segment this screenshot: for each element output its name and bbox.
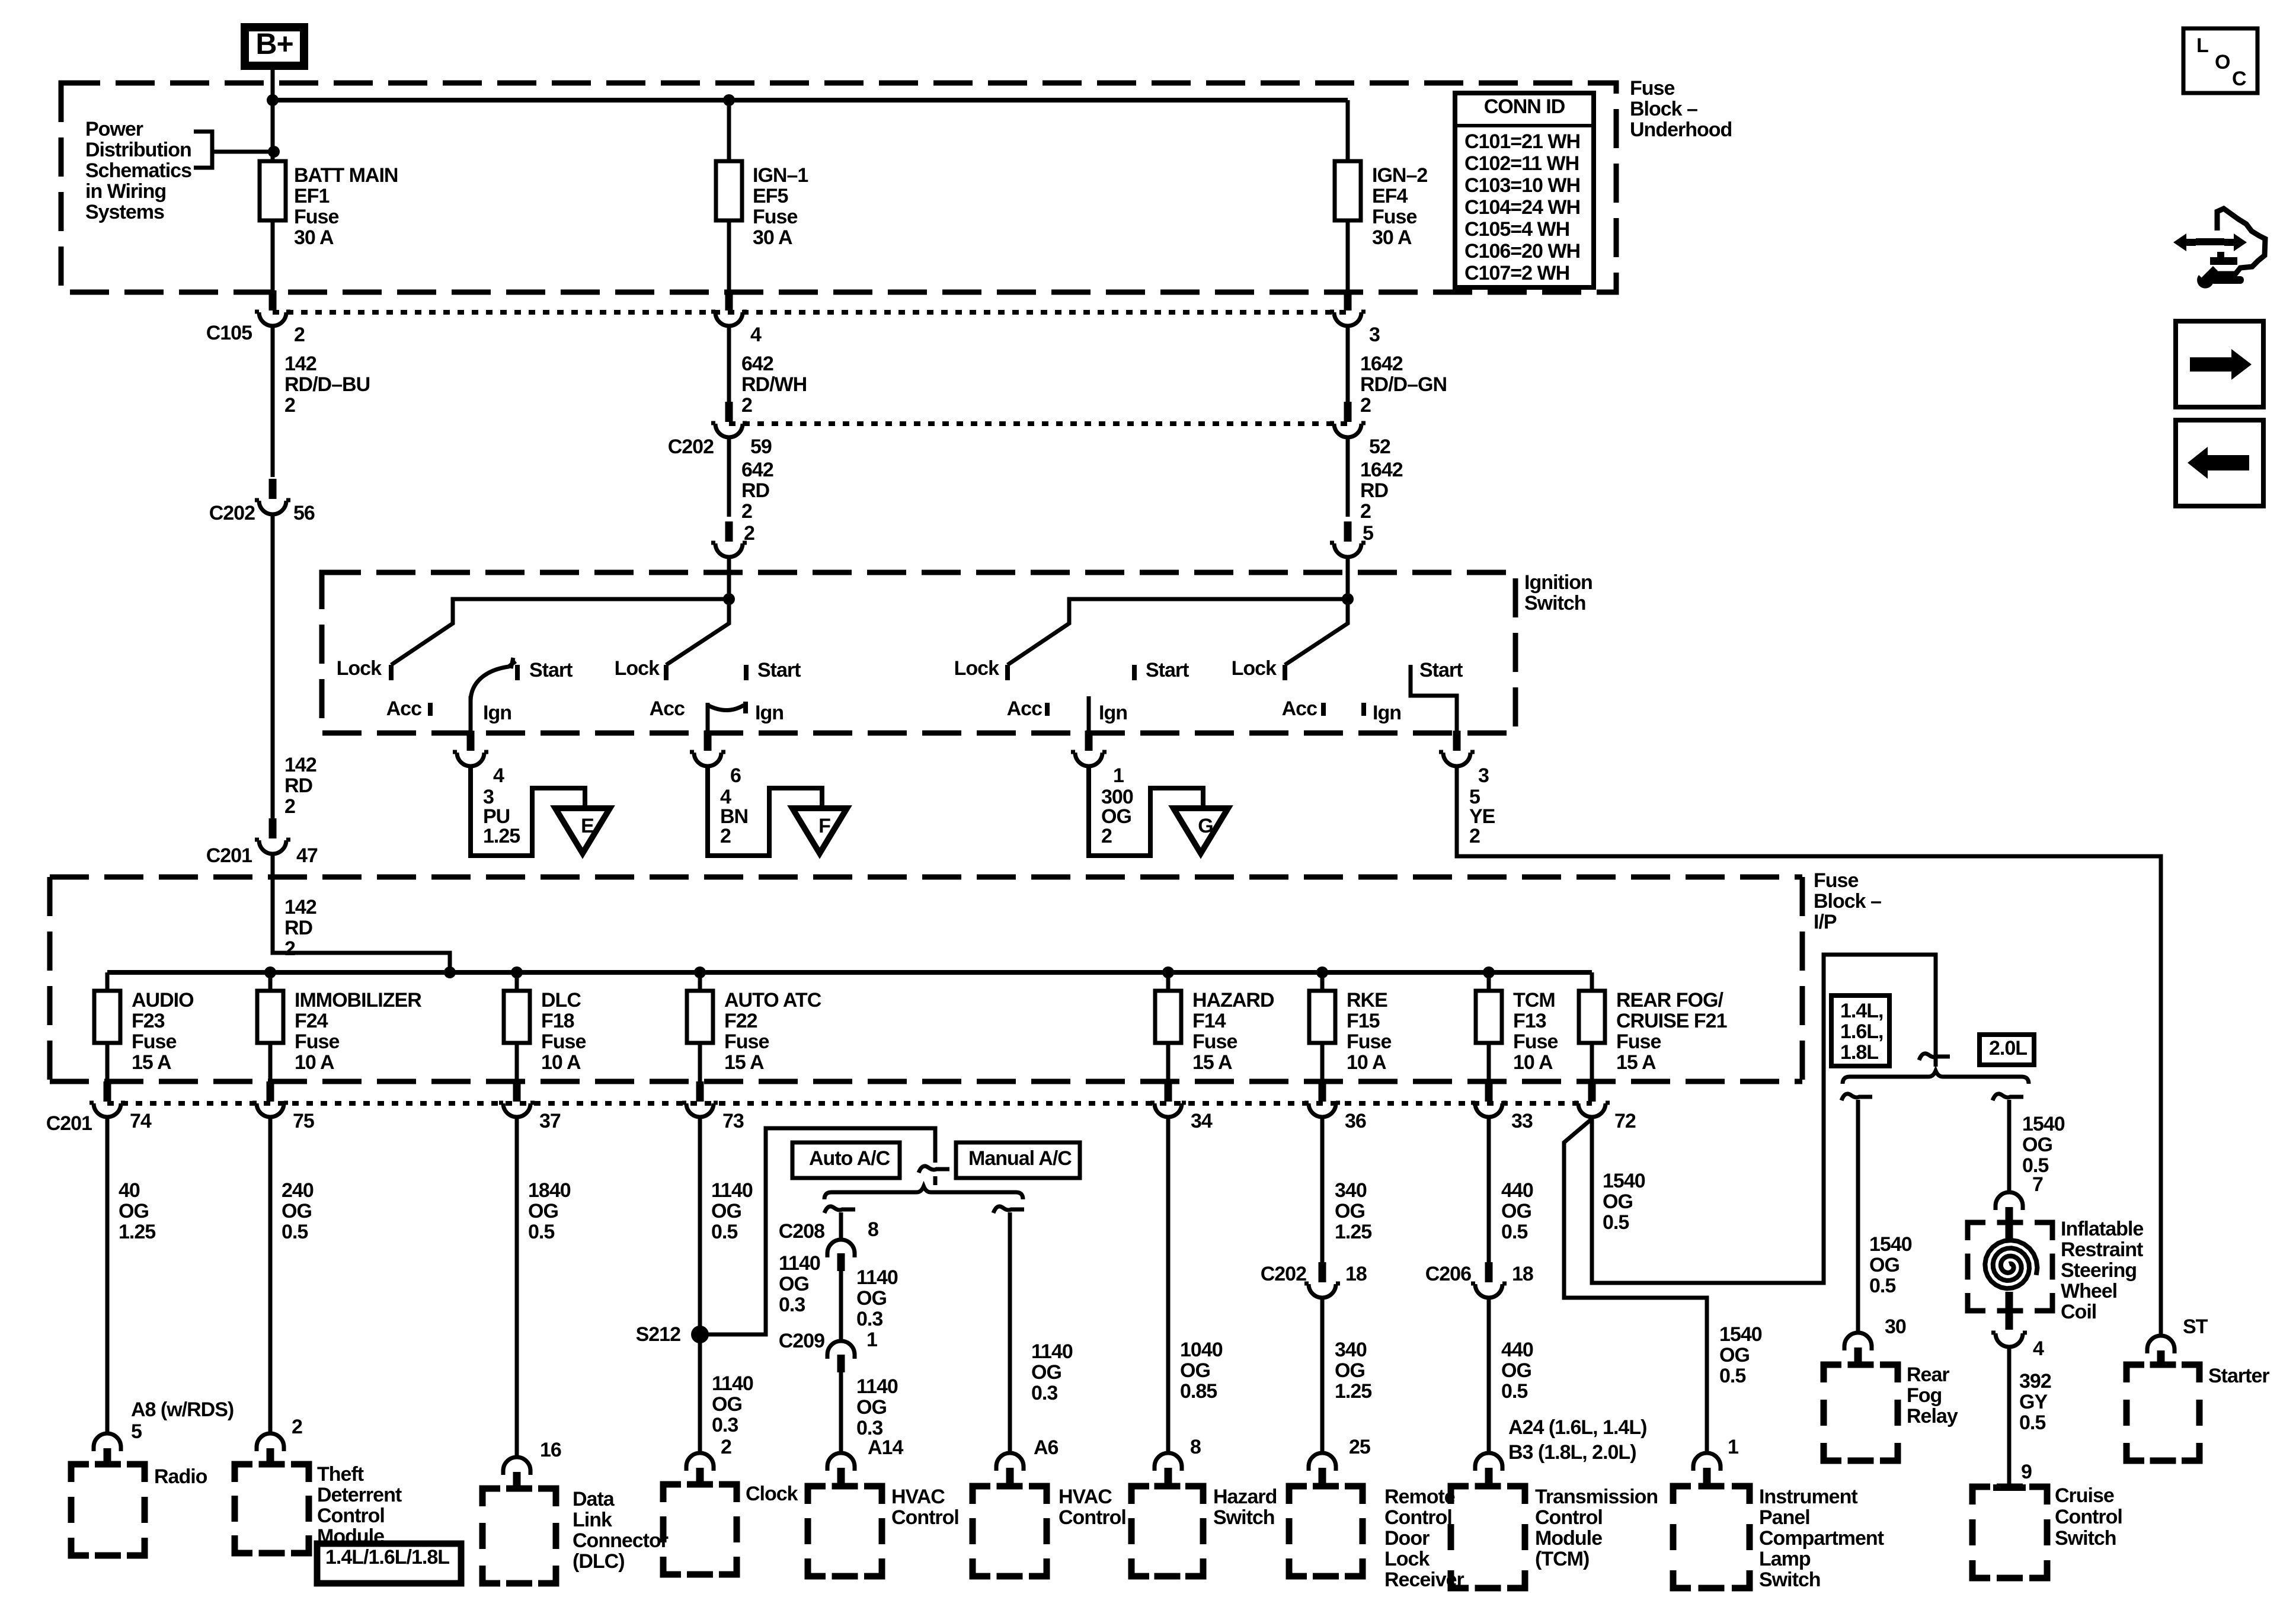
connector switch3 pin 1 xyxy=(1071,731,1107,766)
label instrument lamp switch xyxy=(1759,1486,1884,1591)
svg-text:F15: F15 xyxy=(1347,1010,1380,1032)
connector C201 pin 33 xyxy=(1471,1081,1507,1117)
svg-text:6: 6 xyxy=(730,764,741,787)
wire audio column xyxy=(105,1117,110,1433)
contact lock 4 xyxy=(1232,657,1285,680)
wire switch4 common xyxy=(1285,599,1348,665)
svg-text:OG: OG xyxy=(856,1287,887,1310)
svg-text:Switch: Switch xyxy=(1759,1569,1821,1591)
svg-text:C208: C208 xyxy=(779,1220,824,1243)
svg-text:O: O xyxy=(2215,51,2230,73)
connector hazard pin 8 xyxy=(1155,1453,1182,1484)
svg-text:C202: C202 xyxy=(209,502,255,524)
label pin 30 xyxy=(1885,1315,1906,1338)
wire bus to fuse F22 xyxy=(698,972,702,991)
svg-text:RD: RD xyxy=(741,479,770,502)
node ip bus x872 xyxy=(511,966,523,978)
svg-text:Wheel: Wheel xyxy=(2061,1280,2117,1302)
svg-text:C105: C105 xyxy=(206,322,252,344)
wire ign1 C105-C202 xyxy=(727,326,731,403)
svg-text:CONN ID: CONN ID xyxy=(1484,95,1565,118)
label wire 440 OG 0.5 low xyxy=(1501,1339,1533,1403)
svg-text:Deterrent: Deterrent xyxy=(317,1484,402,1506)
label wire 1140 OG 0.3 left xyxy=(779,1252,820,1316)
svg-text:1540: 1540 xyxy=(1869,1233,1912,1256)
svg-text:B3 (1.8L, 2.0L): B3 (1.8L, 2.0L) xyxy=(1508,1441,1636,1464)
svg-text:Systems: Systems xyxy=(85,201,164,223)
svg-text:Schematics: Schematics xyxy=(85,159,191,182)
label hvac control 1 xyxy=(891,1486,959,1529)
svg-text:25: 25 xyxy=(1349,1436,1370,1458)
svg-text:C107=2 WH: C107=2 WH xyxy=(1464,262,1569,284)
wire switch1 common xyxy=(391,599,729,665)
label wire 240 OG 0.5 xyxy=(282,1179,314,1243)
svg-text:HAZARD: HAZARD xyxy=(1192,989,1274,1012)
svg-text:15 A: 15 A xyxy=(132,1051,171,1074)
svg-text:30 A: 30 A xyxy=(753,226,792,249)
wire f21 instrument branch xyxy=(1564,1119,1707,1452)
svg-text:2: 2 xyxy=(721,1436,731,1458)
svg-text:C201: C201 xyxy=(46,1112,92,1135)
component cruise box xyxy=(1972,1487,2047,1578)
fuse EF1 BATT MAIN xyxy=(260,161,286,220)
icon arrow right box xyxy=(2176,321,2263,407)
svg-text:AUDIO: AUDIO xyxy=(132,989,194,1012)
svg-text:Control: Control xyxy=(2055,1506,2122,1528)
svg-text:1: 1 xyxy=(1113,764,1124,787)
label pin 8 hazard xyxy=(1190,1436,1201,1458)
label fuse F14 xyxy=(1192,989,1274,1074)
connector cruise pin 9 xyxy=(1993,1484,2026,1491)
label pin 73 xyxy=(722,1110,744,1132)
svg-text:2: 2 xyxy=(284,394,295,417)
svg-text:642: 642 xyxy=(741,353,773,375)
label pin 33 xyxy=(1511,1110,1533,1132)
svg-text:(TCM): (TCM) xyxy=(1535,1548,1589,1570)
svg-text:Fuse: Fuse xyxy=(1616,1030,1661,1053)
component hazard box xyxy=(1131,1486,1203,1576)
svg-text:2: 2 xyxy=(741,394,752,417)
svg-text:Lock: Lock xyxy=(954,657,999,680)
label ign 2 xyxy=(755,702,784,724)
svg-text:1140: 1140 xyxy=(1031,1340,1073,1363)
fuse F24 IMMOBILIZER xyxy=(257,991,283,1043)
label pin 3 out xyxy=(1478,764,1489,787)
svg-text:F18: F18 xyxy=(541,1010,574,1032)
label pin 2 theft xyxy=(292,1416,302,1438)
svg-text:7: 7 xyxy=(2032,1173,2043,1196)
label fuse block ip xyxy=(1814,869,1881,933)
svg-text:33: 33 xyxy=(1511,1110,1533,1132)
component hvac2 box xyxy=(973,1486,1047,1576)
svg-text:Data: Data xyxy=(573,1488,615,1510)
label pin 36 xyxy=(1345,1110,1366,1132)
svg-text:Relay: Relay xyxy=(1907,1405,1958,1427)
svg-text:OG: OG xyxy=(282,1200,312,1222)
label inflatable coil xyxy=(2061,1218,2143,1323)
label ign 3 xyxy=(1099,702,1127,724)
connector C201 pin 47 xyxy=(255,818,290,854)
connector C202 pin 59 xyxy=(711,402,747,437)
svg-text:Fuse: Fuse xyxy=(1192,1030,1237,1053)
svg-text:F13: F13 xyxy=(1513,1010,1546,1032)
connector tcm pin xyxy=(1475,1453,1502,1484)
connector C202 pin 52 xyxy=(1330,402,1366,437)
wire switch2 common xyxy=(666,599,729,665)
wire batt C202-C201 xyxy=(271,514,275,818)
fuse F22 AUTO ATC xyxy=(687,991,713,1043)
svg-text:1.25: 1.25 xyxy=(119,1221,155,1243)
svg-text:C102=11 WH: C102=11 WH xyxy=(1464,152,1579,175)
connector C105 pin 3 xyxy=(1330,290,1366,326)
contact lock 1 xyxy=(337,657,391,680)
svg-text:Switch: Switch xyxy=(2055,1527,2116,1550)
svg-text:34: 34 xyxy=(1191,1110,1213,1132)
svg-text:RD: RD xyxy=(1360,479,1389,502)
label ign 1 xyxy=(483,702,511,724)
connector clock pin 2 xyxy=(686,1453,714,1484)
connector instrument pin 1 xyxy=(1693,1453,1721,1484)
svg-text:C202: C202 xyxy=(668,436,714,458)
svg-text:1.25: 1.25 xyxy=(1335,1221,1371,1243)
contact acc 3 xyxy=(1007,697,1047,720)
svg-text:L: L xyxy=(2196,34,2208,57)
brace ac variants xyxy=(824,1186,1023,1199)
label wire 142 RD 2 (b) xyxy=(284,896,316,960)
wire rke upper xyxy=(1320,1117,1325,1263)
wire manual leg xyxy=(1008,1212,1012,1452)
svg-text:RD/D–BU: RD/D–BU xyxy=(284,373,370,396)
svg-text:F14: F14 xyxy=(1192,1010,1226,1032)
label ignition switch xyxy=(1524,571,1593,614)
svg-text:Ign: Ign xyxy=(755,702,784,724)
svg-text:1140: 1140 xyxy=(779,1252,820,1275)
svg-text:10 A: 10 A xyxy=(1513,1051,1553,1074)
contact acc 4 xyxy=(1282,697,1323,720)
svg-text:1.25: 1.25 xyxy=(1335,1380,1371,1403)
wire ign2 drop xyxy=(1346,100,1350,161)
wire fuse F15 to C201 xyxy=(1320,1043,1325,1084)
conn id table xyxy=(1455,93,1594,287)
svg-text:REAR FOG/: REAR FOG/ xyxy=(1616,989,1723,1012)
label pin A14 xyxy=(868,1436,903,1459)
svg-text:Connector: Connector xyxy=(573,1529,669,1552)
wire coil to cruise xyxy=(2007,1347,2012,1487)
svg-text:Theft: Theft xyxy=(317,1463,364,1486)
svg-text:0.3: 0.3 xyxy=(856,1308,882,1330)
svg-text:IGN–1: IGN–1 xyxy=(753,164,808,187)
label pin 4 coil xyxy=(2033,1337,2044,1360)
svg-text:Lock: Lock xyxy=(615,657,660,680)
component clock box xyxy=(663,1484,737,1574)
svg-text:C105=4 WH: C105=4 WH xyxy=(1464,218,1569,241)
icon arrow left box xyxy=(2176,420,2263,506)
svg-text:2: 2 xyxy=(284,795,295,818)
wire atc column xyxy=(698,1117,702,1452)
svg-text:Lock: Lock xyxy=(1384,1548,1430,1570)
label wire 5 YE 2 xyxy=(1469,786,1495,847)
svg-text:Manual A/C: Manual A/C xyxy=(968,1147,1072,1170)
connector C208 pin 8 xyxy=(827,1240,855,1271)
label C209 xyxy=(779,1329,877,1352)
icon loc box xyxy=(2183,28,2257,93)
svg-text:Clock: Clock xyxy=(746,1483,798,1505)
svg-text:A14: A14 xyxy=(868,1436,903,1459)
svg-text:30: 30 xyxy=(1885,1315,1906,1338)
label wire 4 BN 2 xyxy=(720,786,748,847)
svg-text:1642: 1642 xyxy=(1360,353,1403,375)
svg-text:OG: OG xyxy=(1031,1361,1061,1384)
svg-text:A24 (1.6L, 1.4L): A24 (1.6L, 1.4L) xyxy=(1508,1416,1646,1439)
svg-text:Lock: Lock xyxy=(337,657,382,680)
svg-text:Control: Control xyxy=(891,1506,959,1529)
label radio xyxy=(154,1465,207,1488)
svg-text:1.25: 1.25 xyxy=(483,825,520,847)
connector C201 pin 34 xyxy=(1150,1081,1186,1117)
ip bus wire xyxy=(107,970,1592,975)
svg-text:72: 72 xyxy=(1614,1110,1636,1132)
contact start 2 xyxy=(746,659,801,681)
svg-text:Acc: Acc xyxy=(1282,697,1317,720)
wire fuse F23 to C201 xyxy=(105,1043,110,1084)
wire fuse F24 to C201 xyxy=(268,1043,273,1084)
svg-text:18: 18 xyxy=(1345,1263,1367,1285)
wire switch3 out xyxy=(1087,696,1091,733)
variant box 1.4/1.6/1.8 xyxy=(317,1544,461,1583)
svg-text:OG: OG xyxy=(1869,1254,1900,1276)
label pin A6 xyxy=(1034,1436,1059,1459)
svg-text:0.5: 0.5 xyxy=(711,1221,737,1243)
svg-text:2: 2 xyxy=(1469,825,1480,847)
svg-text:240: 240 xyxy=(282,1179,314,1202)
label wire 1140 OG 0.3 a6 xyxy=(1031,1340,1073,1404)
svg-text:Fuse: Fuse xyxy=(1630,77,1674,100)
label C202-18 xyxy=(1261,1263,1367,1285)
label pin 25 xyxy=(1349,1436,1370,1458)
wire bus to fuse F14 xyxy=(1166,972,1171,991)
label wire 340 OG 1.25 low xyxy=(1335,1339,1371,1403)
variant box 2.0 xyxy=(1980,1035,2034,1065)
svg-text:Cruise: Cruise xyxy=(2055,1484,2114,1507)
wire ign2 into switch xyxy=(1346,557,1350,599)
svg-text:1.4L,: 1.4L, xyxy=(1840,1000,1883,1022)
connector remote pin 25 xyxy=(1309,1453,1336,1484)
svg-text:Block –: Block – xyxy=(1630,98,1697,120)
svg-text:Fuse: Fuse xyxy=(1814,869,1858,892)
svg-text:Ignition: Ignition xyxy=(1524,571,1593,594)
label pins A24 B3 xyxy=(1508,1416,1646,1464)
svg-text:340: 340 xyxy=(1335,1339,1367,1361)
node ip bus x1181 xyxy=(694,966,706,978)
wire S212 to ac brace xyxy=(700,1128,935,1334)
svg-text:Auto A/C: Auto A/C xyxy=(809,1147,890,1170)
svg-text:0.5: 0.5 xyxy=(1719,1365,1745,1387)
svg-text:Compartment: Compartment xyxy=(1759,1527,1884,1550)
label hvac control 2 xyxy=(1059,1486,1126,1529)
label wire 1840 OG 0.5 xyxy=(528,1179,571,1243)
wire tcm upper xyxy=(1487,1117,1491,1263)
svg-text:340: 340 xyxy=(1335,1179,1367,1202)
label wire 440 OG 0.5 up xyxy=(1501,1179,1533,1243)
wire start to ST xyxy=(1457,766,2161,1336)
label pin 3 xyxy=(1369,324,1380,346)
svg-text:Control: Control xyxy=(317,1505,385,1527)
label fuse F18 xyxy=(541,989,586,1074)
wire ign2 C105-C202 xyxy=(1346,326,1350,403)
label wire 1540 OG 0.5 coil xyxy=(2022,1113,2065,1177)
label ST xyxy=(2183,1315,2208,1338)
wire ign1 C202-sw xyxy=(727,437,731,517)
wire rke lower xyxy=(1320,1298,1325,1452)
fuse F18 DLC xyxy=(504,991,530,1043)
svg-text:1642: 1642 xyxy=(1360,459,1403,481)
label C202-59 xyxy=(668,436,772,458)
svg-text:2: 2 xyxy=(284,937,295,960)
svg-text:E: E xyxy=(581,815,594,837)
svg-text:Panel: Panel xyxy=(1759,1506,1810,1529)
svg-text:OG: OG xyxy=(2022,1134,2052,1156)
label pin 5 ign-sw xyxy=(1363,522,1373,545)
label pin 4 xyxy=(750,324,762,346)
wire C208-C209 xyxy=(839,1271,843,1340)
component instrument box xyxy=(1673,1486,1750,1588)
svg-text:74: 74 xyxy=(130,1110,152,1132)
node switch1 feed xyxy=(723,593,735,605)
label wire 300 OG 2 xyxy=(1101,786,1133,847)
ground E xyxy=(471,766,610,856)
svg-text:15 A: 15 A xyxy=(1192,1051,1232,1074)
svg-text:Restraint: Restraint xyxy=(2061,1238,2143,1261)
wire bus to fuse F24 xyxy=(268,972,273,991)
wire immob column xyxy=(268,1117,273,1433)
svg-text:DLC: DLC xyxy=(541,989,581,1012)
svg-text:10 A: 10 A xyxy=(295,1051,334,1074)
svg-text:EF5: EF5 xyxy=(753,185,788,207)
component dlc box xyxy=(482,1489,556,1583)
label pin 75 xyxy=(293,1110,314,1132)
svg-text:RD/D–GN: RD/D–GN xyxy=(1360,373,1447,396)
svg-text:F: F xyxy=(818,815,830,837)
svg-text:Transmission: Transmission xyxy=(1535,1486,1658,1508)
label wire 642 RD/WH xyxy=(741,353,807,417)
svg-text:C206: C206 xyxy=(1425,1263,1471,1285)
component coil dashed box xyxy=(1968,1222,2052,1311)
svg-text:4: 4 xyxy=(493,764,504,787)
label pin 2 clock xyxy=(721,1436,731,1458)
svg-text:EF1: EF1 xyxy=(294,185,329,207)
wire hazard column xyxy=(1166,1117,1171,1452)
label wire 1540 OG 0.5 fog xyxy=(1869,1233,1912,1297)
bracket power distribution xyxy=(194,132,280,168)
label fuse EF5 xyxy=(753,164,808,249)
label wire 1040 OG 0.85 xyxy=(1180,1339,1223,1403)
wire bus to fuse F15 xyxy=(1320,972,1325,991)
svg-text:2: 2 xyxy=(292,1416,302,1438)
wire ign1 into switch xyxy=(727,557,731,599)
label dlc xyxy=(573,1488,669,1573)
svg-text:73: 73 xyxy=(722,1110,744,1132)
label fuse block underhood xyxy=(1630,77,1732,141)
label pin 72 xyxy=(1614,1110,1636,1132)
wire C209-A14 xyxy=(839,1372,843,1452)
label pin 4 out xyxy=(493,764,504,787)
component starter box xyxy=(2126,1365,2199,1461)
svg-text:B+: B+ xyxy=(255,27,293,60)
svg-text:2.0L: 2.0L xyxy=(1989,1037,2027,1060)
label pin 37 xyxy=(539,1110,561,1132)
svg-text:F23: F23 xyxy=(132,1010,165,1032)
label pin 34 xyxy=(1191,1110,1213,1132)
component radio box xyxy=(71,1464,145,1555)
label fuse F23 xyxy=(132,989,194,1074)
fuse F14 HAZARD xyxy=(1155,991,1181,1043)
svg-text:1.8L: 1.8L xyxy=(1840,1041,1878,1064)
label pin 16 xyxy=(540,1439,561,1461)
connector C201 pin 75 xyxy=(252,1081,288,1117)
svg-text:0.5: 0.5 xyxy=(2019,1411,2045,1434)
label fuse F22 xyxy=(724,989,821,1074)
connector switch4 pin 3 xyxy=(1439,731,1475,766)
svg-text:in Wiring: in Wiring xyxy=(85,180,166,203)
label C206-18 xyxy=(1425,1263,1533,1285)
label pin A8 xyxy=(131,1398,234,1443)
contact start 3 xyxy=(1134,659,1189,681)
svg-text:0.5: 0.5 xyxy=(1869,1275,1895,1297)
svg-text:Acc: Acc xyxy=(386,697,421,720)
wire ign2 through C105 xyxy=(1346,220,1350,290)
svg-text:0.3: 0.3 xyxy=(712,1414,738,1436)
label pin 7 xyxy=(2032,1173,2043,1196)
svg-text:Door: Door xyxy=(1384,1527,1430,1550)
svg-text:1140: 1140 xyxy=(856,1375,898,1398)
svg-text:TCM: TCM xyxy=(1513,989,1555,1012)
svg-text:HVAC: HVAC xyxy=(1059,1486,1112,1508)
svg-text:OG: OG xyxy=(1335,1200,1365,1222)
svg-text:OG: OG xyxy=(779,1273,809,1295)
svg-text:Distribution: Distribution xyxy=(85,139,191,161)
svg-text:Control: Control xyxy=(1535,1506,1603,1529)
squiggle coil leg xyxy=(1993,1094,2023,1100)
connector C202 pin 56 xyxy=(255,479,290,514)
svg-text:2: 2 xyxy=(1360,394,1371,417)
connector switch2 pin 6 xyxy=(690,731,725,766)
svg-text:4: 4 xyxy=(2033,1337,2044,1360)
svg-text:Fuse: Fuse xyxy=(1513,1030,1558,1053)
component hvac1 box xyxy=(808,1486,882,1576)
svg-text:Link: Link xyxy=(573,1509,612,1531)
svg-text:Switch: Switch xyxy=(1213,1506,1275,1529)
node S212 xyxy=(636,1323,709,1346)
svg-text:1540: 1540 xyxy=(2022,1113,2065,1135)
label C201 xyxy=(46,1112,92,1135)
box auto ac xyxy=(792,1142,900,1178)
svg-text:RKE: RKE xyxy=(1347,989,1387,1012)
svg-text:ST: ST xyxy=(2183,1315,2208,1338)
wire switch2 out xyxy=(706,703,710,733)
svg-text:Fuse: Fuse xyxy=(1347,1030,1391,1053)
svg-text:A8 (w/RDS): A8 (w/RDS) xyxy=(131,1398,234,1421)
svg-text:10 A: 10 A xyxy=(541,1051,581,1074)
label rear fog relay xyxy=(1907,1363,1958,1427)
svg-text:Start: Start xyxy=(529,659,573,681)
connector C105 pin 2 xyxy=(255,290,290,326)
svg-text:0.3: 0.3 xyxy=(1031,1382,1057,1404)
label pin 1 inst xyxy=(1728,1436,1738,1458)
svg-text:Hazard: Hazard xyxy=(1213,1486,1277,1508)
svg-text:2: 2 xyxy=(1101,825,1112,847)
brace engine variants xyxy=(1843,1071,2029,1084)
connector C206 pin 18 xyxy=(1471,1262,1507,1298)
